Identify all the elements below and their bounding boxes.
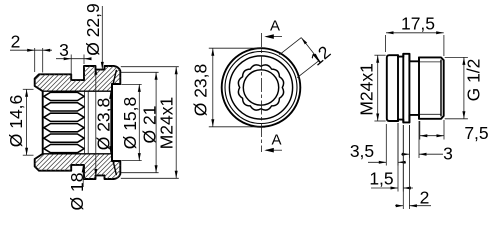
pilot bore bottom line xyxy=(112,160,120,162)
dimension Ø23,8 line xyxy=(110,92,112,154)
12-point socket profile xyxy=(238,65,283,110)
svg-text:3: 3 xyxy=(443,144,453,164)
dimension 2 extension lines xyxy=(34,48,36,72)
G thread root bottom xyxy=(420,113,441,115)
dimension 7,5 line xyxy=(420,135,444,137)
dimension G 1/2 line xyxy=(463,57,465,118)
body outline (side view) xyxy=(387,54,444,123)
dimension Ø15,8 extension lines xyxy=(121,83,141,85)
dimension 3,5 extension lines xyxy=(385,124,387,166)
dimension 12 extension lines xyxy=(279,38,301,55)
G thread root top xyxy=(420,61,441,63)
chamfer circle xyxy=(225,52,297,124)
dimension Ø22,9 leader xyxy=(101,6,103,69)
svg-text:7,5: 7,5 xyxy=(464,123,488,143)
socket face line xyxy=(87,91,89,154)
svg-text:2: 2 xyxy=(11,32,21,52)
svg-text:Ø 14,6: Ø 14,6 xyxy=(6,95,26,148)
svg-text:G 1/2: G 1/2 xyxy=(464,59,484,102)
hatched lower wall xyxy=(0,150,154,183)
outer circle xyxy=(222,48,301,127)
serration end line xyxy=(84,91,86,154)
dimension Ø23,8 line (front view) xyxy=(212,48,214,127)
socket inner circle xyxy=(243,70,278,105)
svg-text:Ø 23,8: Ø 23,8 xyxy=(190,64,210,117)
bore entry chamfer top xyxy=(113,71,116,84)
svg-text:Ø 22,9: Ø 22,9 xyxy=(83,3,103,56)
svg-text:17,5: 17,5 xyxy=(401,13,435,33)
socket face circle xyxy=(229,56,292,119)
dimension 7,5 extension lines xyxy=(419,121,421,140)
svg-text:1,5: 1,5 xyxy=(369,169,393,189)
dimension M24x1 line xyxy=(175,67,177,179)
dimension 12 line xyxy=(301,38,319,61)
dimension 17,5 extension lines xyxy=(385,35,387,52)
dimension M24x1 extension lines xyxy=(121,66,179,68)
dimension Ø14,6 line xyxy=(26,89,28,155)
svg-text:2: 2 xyxy=(420,188,430,208)
section arrow A top xyxy=(266,36,282,38)
socket serration teeth xyxy=(44,92,84,100)
socket bore top line xyxy=(43,90,112,92)
svg-text:Ø 15,8: Ø 15,8 xyxy=(120,97,140,150)
dimension 3 line xyxy=(56,58,90,60)
dimension M24x1 line (side view) xyxy=(377,55,379,121)
dimension Ø21 line xyxy=(155,72,157,172)
dimension M24x1 extension ticks (side view) xyxy=(374,54,385,56)
svg-text:3,5: 3,5 xyxy=(350,141,374,161)
svg-text:Ø 18: Ø 18 xyxy=(67,173,87,211)
svg-text:M24x1: M24x1 xyxy=(156,97,176,150)
dimension 3 extension lines (side view) xyxy=(408,125,410,158)
dimension 17,5 line xyxy=(386,32,444,34)
svg-text:M24x1: M24x1 xyxy=(357,63,377,116)
section arrow A bottom xyxy=(266,149,282,151)
bore entry chamfer bottom xyxy=(113,162,116,175)
dimension Ø21 extension lines xyxy=(121,71,159,73)
dimension 2 line (side view) xyxy=(395,205,403,207)
svg-text:A: A xyxy=(271,132,281,149)
hatched upper wall xyxy=(0,62,154,95)
dimension 1,5 extension lines xyxy=(397,123,399,192)
knurl band right edge xyxy=(408,54,410,123)
dimension 2 line xyxy=(10,49,52,51)
dimension Ø18 leader xyxy=(82,165,84,187)
dimension 2 extension lines (side view) xyxy=(402,125,404,209)
dimension Ø22,9 span line xyxy=(95,68,97,177)
dimension Ø14,6 extension ticks xyxy=(23,88,34,90)
thread band right edge xyxy=(397,55,399,121)
end face chamfer edge xyxy=(440,60,442,116)
dimension G 1/2 extension ticks xyxy=(445,56,468,58)
dimension Ø15,8 line xyxy=(138,84,140,160)
dimension 3 line (side view) xyxy=(401,153,409,155)
socket bore bottom line xyxy=(43,153,112,155)
G thread start edge xyxy=(418,57,420,118)
section line A-A xyxy=(261,33,263,152)
dimension 3 extension lines xyxy=(70,55,72,79)
dimension Ø23,8 extension lines (front view) xyxy=(209,47,262,49)
dimension 3,5 line xyxy=(368,161,386,163)
svg-text:3: 3 xyxy=(59,40,69,60)
body outline (section A-A) xyxy=(35,66,121,179)
pilot bore top line xyxy=(112,83,120,85)
knurl band left edge xyxy=(402,54,404,123)
svg-text:A: A xyxy=(270,18,280,35)
dimension 1,5 line xyxy=(371,187,398,189)
socket end wall xyxy=(111,84,113,161)
